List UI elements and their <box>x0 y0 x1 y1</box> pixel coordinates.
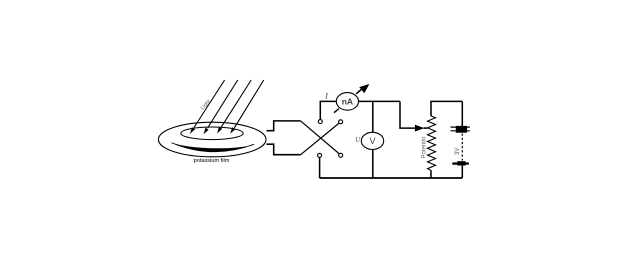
wire potentiometer bottom stub <box>430 170 432 178</box>
battery cell 1 thick plate <box>456 126 467 133</box>
ammeter pointer arrow <box>356 85 368 94</box>
svg-text:3V: 3V <box>455 148 461 155</box>
wire tube bottom lead <box>267 144 301 155</box>
svg-text:potassium film: potassium film <box>194 158 230 164</box>
battery cell 2 thick plate <box>457 161 465 165</box>
wire crossed lead to lower-right terminal <box>301 121 339 154</box>
svg-text:Potentio: Potentio <box>422 136 428 159</box>
voltmeter V <box>361 132 383 149</box>
wire terminal TL to ammeter <box>320 101 336 119</box>
svg-text:nA: nA <box>342 96 353 106</box>
ammeter nA <box>336 93 358 111</box>
wire potentiometer top link <box>431 101 462 116</box>
svg-text:V: V <box>369 136 375 146</box>
wire bottom rail <box>320 177 463 179</box>
light ray 4 <box>230 80 264 134</box>
terminal BL <box>318 153 322 157</box>
wire tube top lead <box>267 121 301 131</box>
light ray 3 <box>217 80 251 133</box>
svg-text:U: U <box>355 136 361 144</box>
evacuated tube envelope <box>158 122 266 157</box>
svg-text:I: I <box>324 91 329 101</box>
wire terminal BL down to bottom rail <box>319 158 321 178</box>
wiper arrow <box>415 125 424 132</box>
light ray 2 <box>204 80 238 134</box>
wire crossed lead to upper-right terminal <box>301 123 339 154</box>
wire wiper tip to potentiometer <box>424 127 428 129</box>
ammeter pointer line lower segment <box>334 109 339 113</box>
terminal TR <box>339 120 343 124</box>
battery dashed cells omitted <box>461 134 463 161</box>
light ray 1 <box>190 80 225 134</box>
wire battery top <box>461 101 463 126</box>
battery cell 2 plate <box>452 162 469 164</box>
potentiometer R <box>428 116 436 170</box>
wire voltmeter branch bottom <box>372 150 374 179</box>
wire battery bottom <box>461 166 463 179</box>
terminal BR <box>339 153 343 157</box>
photosensitive plate <box>172 143 255 152</box>
wire corner down to wiper <box>400 101 415 128</box>
wire voltmeter branch top <box>372 101 374 132</box>
terminal TL <box>318 120 322 124</box>
anode ring <box>181 127 243 140</box>
battery cell 1 plate long b <box>451 130 470 132</box>
wire ammeter to top-right corner <box>359 100 401 102</box>
battery cell 1 plate long a <box>451 126 470 128</box>
